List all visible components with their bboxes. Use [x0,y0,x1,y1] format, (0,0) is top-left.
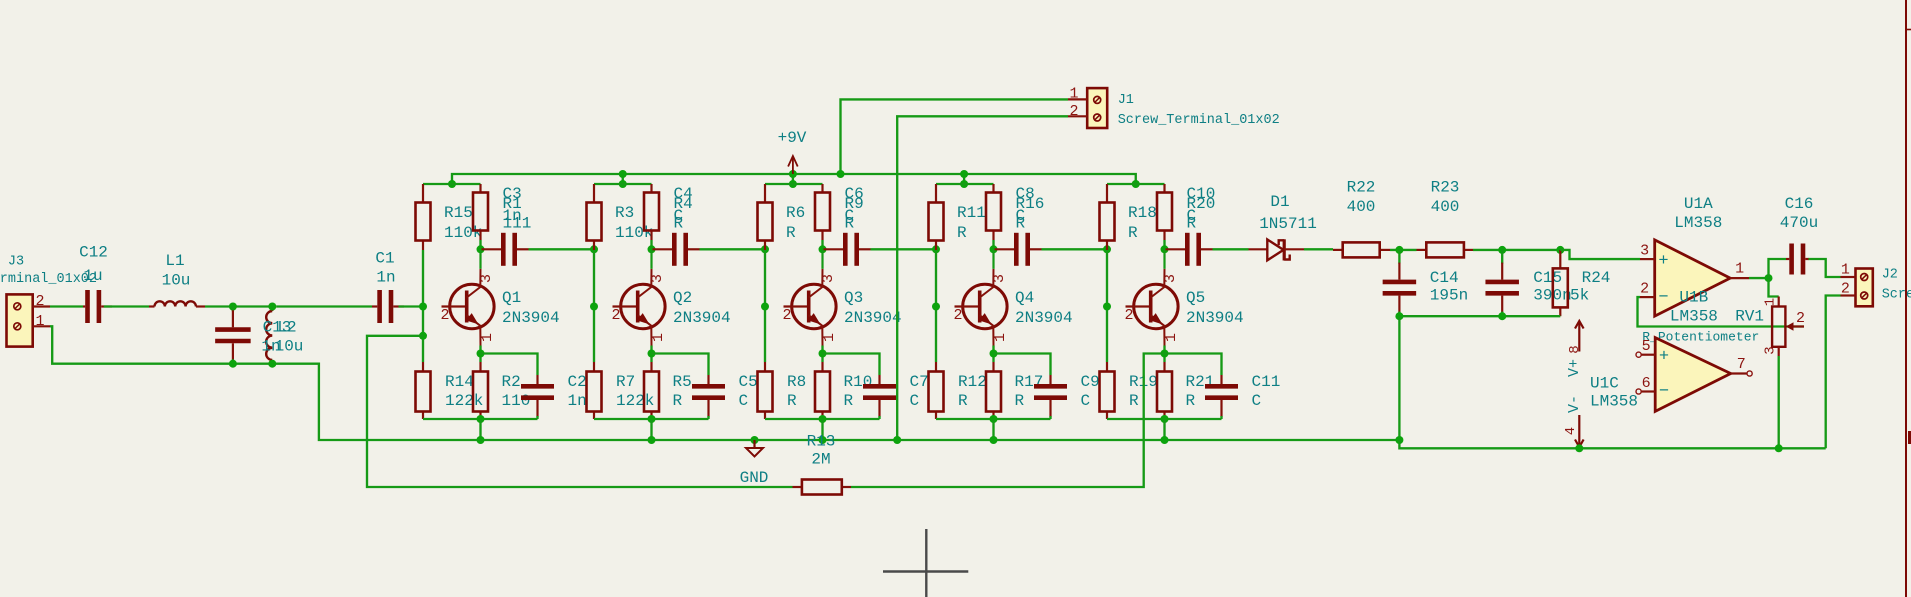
power +9V [788,156,798,174]
resistor R9 [815,184,830,240]
svg-text:U1A: U1A [1684,195,1713,213]
transistor Q4 [955,249,1008,345]
junction L2 top [268,303,276,311]
wire to bypass C2 [481,354,538,376]
svg-text:3: 3 [478,274,495,283]
svg-text:R13: R13 [807,433,836,451]
svg-text:Screw_Terminal_01x02: Screw_Terminal_01x02 [1118,113,1280,128]
wire J3.2 to C12 [50,305,83,307]
junction GND symbol [751,436,759,444]
junction rail tap top [960,170,968,178]
svg-text:C5: C5 [739,373,758,391]
wire J1.1 to +9V rail [841,99,1069,174]
wire J3.1 return [50,326,1399,440]
svg-text:R: R [786,224,796,242]
svg-text:2N3904: 2N3904 [673,309,731,327]
capacitor C15 [1485,250,1519,316]
wire out to C16 [1769,259,1787,278]
resistor R20 [1157,184,1172,240]
svg-text:1: 1 [650,333,667,342]
pin 1 of J2 [1841,276,1856,278]
resistor R5 [644,362,659,419]
resistor R15 [416,184,431,250]
svg-text:10u: 10u [162,272,191,290]
junction filter ground [1395,436,1403,444]
junction base Q2 [590,303,598,311]
wire feedback left [367,336,793,487]
junction C15 bottom [1498,312,1506,320]
wire feed stage 5 [1107,183,1165,185]
junction RV1 ground [1775,444,1783,452]
resistor R22 [1333,242,1390,257]
resistor R14 [416,362,431,419]
svg-text:2: 2 [1841,281,1850,298]
svg-text:C: C [1081,392,1091,410]
svg-text:1: 1 [992,333,1009,342]
svg-text:5k: 5k [1570,287,1589,305]
svg-text:R: R [1015,392,1025,410]
wire feed stage 3 [765,183,823,185]
wire to bypass C5 [652,354,709,376]
svg-text:3: 3 [649,274,666,283]
junction C14 bottom [1395,312,1403,320]
junction C13 top [229,303,237,311]
resistor R12 [929,362,944,419]
resistor R24 [1553,250,1568,316]
junction R24 top [1556,246,1564,254]
junction J1.1 rail [837,170,845,178]
junction rail tap bottom [619,180,627,188]
junction V- rail [1575,444,1583,452]
svg-text:470u: 470u [1780,214,1818,232]
wire to bypass C9 [994,354,1051,376]
svg-text:3: 3 [991,274,1008,283]
wire C10 to D1 [1213,248,1249,250]
wire emitter Q4 [992,346,994,363]
svg-text:5: 5 [1642,338,1651,355]
wire R9 to collector [821,240,823,249]
junction collector Q4 [990,245,998,253]
svg-text:2: 2 [1124,307,1133,324]
svg-text:R5: R5 [673,373,692,391]
svg-text:R: R [958,392,968,410]
svg-text:2: 2 [611,307,620,324]
wire base line Q2 [593,250,595,362]
svg-text:R12: R12 [958,373,987,391]
junction emitter Q3 [819,350,827,358]
capacitor C8 [995,233,1042,266]
svg-text:R11: R11 [957,204,986,222]
svg-text:R6: R6 [786,204,805,222]
svg-text:110k: 110k [444,224,482,242]
junction ground Q3 [819,436,827,444]
wire out to RV1 [1769,278,1779,296]
junction collector Q1 [477,245,485,253]
svg-text:2: 2 [35,293,44,310]
wire C16 to J2.1 [1809,259,1841,277]
wire J2.2 to ground [1826,296,1841,449]
svg-text:1: 1 [1735,261,1744,278]
svg-text:400: 400 [1431,198,1460,216]
resistor R19 [1100,362,1115,419]
svg-text:2: 2 [1069,103,1078,120]
svg-text:R: R [674,215,684,233]
wire J1.2 to ground [897,116,1068,440]
svg-text:C12: C12 [79,244,108,262]
wire coupling to stage 4 [871,248,937,250]
svg-text:3: 3 [1763,346,1779,354]
svg-text:RV1: RV1 [1735,307,1764,325]
wire R1 to collector [479,240,481,249]
svg-text:LM358: LM358 [1590,393,1638,411]
svg-text:3: 3 [820,274,837,283]
connector J3 [7,294,33,346]
svg-text:R22: R22 [1347,179,1376,197]
junction tie Q2 [648,415,656,423]
resistor R23 [1417,242,1474,257]
svg-text:1: 1 [821,333,838,342]
svg-text:R: R [1016,215,1026,233]
wire tie to ground Q1 [479,419,481,440]
svg-text:L2: L2 [277,319,296,337]
junction tie Q4 [990,415,998,423]
wire R23 to R24 [1473,249,1560,251]
resistor R4 [644,184,659,240]
wire U1A.2 to wiper [1638,297,1805,326]
capacitor C10 [1166,233,1213,266]
svg-text:1: 1 [1163,333,1180,342]
wire C1 to Q1 base [399,305,424,307]
wire base line Q1 [422,250,424,362]
svg-text:−: − [1658,288,1668,307]
transistor Q2 [613,249,666,345]
svg-text:C9: C9 [1081,373,1100,391]
junction base Q5 [1103,303,1111,311]
wire bottom tie stage 3 [765,418,880,420]
svg-text:2N3904: 2N3904 [502,309,560,327]
sheet border [1906,0,1911,597]
junction base feed Q4 [932,245,940,253]
svg-text:U1C: U1C [1590,375,1619,393]
svg-text:GND: GND [740,469,769,487]
svg-text:R: R [845,215,855,233]
resistor R21 [1157,362,1172,419]
junction emitter Q4 [990,350,998,358]
wire node to C1 [277,305,372,307]
junction rail end [1132,180,1140,188]
resistor R18 [1100,184,1115,250]
transistor Q1 [442,249,495,345]
svg-text:2: 2 [1640,281,1649,298]
junction U1A output [1765,274,1773,282]
svg-text:LM358: LM358 [1670,307,1718,325]
svg-text:U1B: U1B [1679,289,1708,307]
svg-text:+9V: +9V [778,129,807,147]
resistor R2 [473,362,488,419]
svg-text:R3: R3 [615,204,634,222]
wire coupling to stage 3 [700,248,766,250]
svg-text:110k: 110k [615,224,653,242]
svg-text:R2: R2 [502,373,521,391]
capacitor C1 [372,290,404,323]
resistor R6 [758,184,773,250]
junction base feed Q3 [761,245,769,253]
wire feed stage 4 [936,183,994,185]
diode D1 [1249,239,1305,260]
junction base feed Q5 [1103,245,1111,253]
junction ground Q4 [990,436,998,444]
wire C12 to L1 [104,305,149,307]
wire +9V rail [452,174,1136,184]
wire base line Q3 [764,250,766,362]
svg-text:2M: 2M [811,451,830,469]
svg-text:R14: R14 [445,373,474,391]
junction collector Q5 [1161,245,1169,253]
svg-text:195n: 195n [1430,287,1468,305]
wire emitter Q3 [821,346,823,363]
svg-text:2N3904: 2N3904 [1186,309,1244,327]
svg-text:122k: 122k [616,392,654,410]
resistor R3 [587,184,602,250]
junction emitter Q1 [477,350,485,358]
junction rail tap bottom [960,180,968,188]
svg-text:2: 2 [953,307,962,324]
junction base feed Q2 [590,245,598,253]
svg-text:C15: C15 [1533,269,1562,287]
junction ground Q1 [477,436,485,444]
capacitor C4 [653,233,700,266]
svg-text:2N3904: 2N3904 [1015,309,1073,327]
pin 2 of J2 [1841,294,1856,296]
wire bottom tie stage 4 [936,418,1051,420]
svg-text:111: 111 [503,215,532,233]
wire to U1A pin3 [1560,250,1640,259]
power pin V+ of U1C [1575,321,1584,352]
svg-text:Q1: Q1 [502,289,521,307]
svg-text:2N3904: 2N3904 [844,309,902,327]
svg-text:2: 2 [1796,310,1805,327]
svg-text:R8: R8 [787,373,806,391]
svg-text:V+: V+ [1566,359,1583,377]
junction rail start [448,180,456,188]
wire cap ground tie [1399,315,1560,317]
svg-text:110: 110 [502,392,531,410]
resistor R17 [986,362,1001,419]
svg-text:Q3: Q3 [844,289,863,307]
resistor R13 [793,480,852,495]
wire R22 to R23 [1390,249,1417,251]
wire tie to ground Q2 [650,419,652,440]
resistor R1 [473,184,488,240]
capacitor C14 [1383,250,1417,316]
wire bottom tie stage 5 [1107,418,1222,420]
capacitor C11 [1205,375,1238,419]
svg-text:−: − [1659,383,1669,402]
svg-text:C1: C1 [375,250,394,268]
wire base line Q5 [1106,250,1108,362]
junction rail tap top [789,170,797,178]
crosshair marker [883,529,968,597]
svg-text:J1: J1 [1118,93,1134,108]
ground [746,440,763,457]
svg-text:D1: D1 [1270,193,1289,211]
junction emitter Q2 [648,350,656,358]
svg-text:1: 1 [35,313,44,330]
svg-text:400: 400 [1347,198,1376,216]
svg-text:R: R [957,224,967,242]
capacitor C13 [215,307,251,364]
inductor L2 [266,307,272,364]
svg-text:Q4: Q4 [1015,289,1034,307]
svg-text:C11: C11 [1252,373,1281,391]
svg-text:1: 1 [1763,298,1779,306]
junction emitter Q5 [1161,350,1169,358]
wire right ground rail [1399,440,1825,448]
op-amp U1A [1640,240,1749,316]
svg-text:10u: 10u [275,338,304,356]
junction C14 top [1395,246,1403,254]
junction feedback at Q1 base [419,332,427,340]
svg-text:R18: R18 [1128,204,1157,222]
wire RV1.3 to ground [1778,356,1780,448]
wire coupling to stage 5 [1042,248,1108,250]
svg-text:R15: R15 [444,204,473,222]
svg-text:1n: 1n [376,269,395,287]
wire R4 to collector [650,240,652,249]
capacitor C6 [824,233,871,266]
svg-text:1: 1 [1841,262,1850,279]
svg-text:R23: R23 [1431,179,1460,197]
capacitor C2 [521,375,554,419]
svg-text:V-: V- [1566,395,1583,413]
wire L1 to node [205,305,277,307]
svg-text:C16: C16 [1785,195,1814,213]
wire rail tap [622,174,624,184]
wire rail tap [792,174,794,184]
svg-text:3: 3 [1162,274,1179,283]
wire D1 to R22 [1304,248,1333,250]
svg-text:J3: J3 [8,255,24,270]
svg-text:J2: J2 [1882,268,1898,283]
junction tie Q3 [819,415,827,423]
junction collector Q3 [819,245,827,253]
resistor R8 [758,362,773,419]
power pin V- of U1C [1575,415,1584,447]
op-amp U1B [1636,338,1752,412]
junction rail tap top [619,170,627,178]
svg-text:Q2: Q2 [673,289,692,307]
wire tie to ground Q5 [1163,419,1165,440]
wire U1A.1 out [1749,277,1769,279]
svg-text:6: 6 [1642,375,1651,392]
wire bottom tie stage 2 [594,418,709,420]
svg-text:C2: C2 [568,373,587,391]
junction base Q1 [419,303,427,311]
svg-text:C7: C7 [910,373,929,391]
svg-text:3: 3 [1640,243,1649,260]
connector J2 [1856,269,1873,307]
svg-text:R: R [787,392,797,410]
junction ground Q2 [648,436,656,444]
pin 1 of J1 [1068,98,1087,100]
resistor R16 [986,184,1001,240]
svg-text:C: C [739,392,749,410]
connector J1 [1087,88,1107,128]
svg-text:R: R [1187,215,1197,233]
svg-text:1u: 1u [83,267,102,285]
junction tie Q1 [477,415,485,423]
svg-text:L1: L1 [165,252,184,270]
capacitor C5 [692,375,725,419]
wire rail tap [963,174,965,184]
wire emitter Q1 [479,346,481,363]
transistor Q5 [1126,249,1179,345]
potentiometer RV1 [1772,297,1804,357]
svg-text:1N5711: 1N5711 [1259,215,1317,233]
capacitor C9 [1034,375,1067,419]
junction base Q4 [932,303,940,311]
svg-text:+: + [1658,252,1668,271]
wire feedback right [851,354,1165,488]
svg-text:2: 2 [782,307,791,324]
svg-text:R7: R7 [616,373,635,391]
wire to bypass C7 [823,354,880,376]
svg-text:C: C [1252,392,1262,410]
svg-text:R: R [1186,392,1196,410]
resistor R11 [929,184,944,250]
capacitor C16 [1786,244,1809,275]
capacitor C12 [83,290,112,323]
svg-text:8: 8 [1567,345,1583,353]
pin 2 of J3 [33,305,50,307]
junction J1.2 ground [893,436,901,444]
capacitor C3 [482,233,529,266]
wire emitter Q2 [650,346,652,363]
svg-text:4: 4 [1563,427,1579,435]
junction tie Q5 [1161,415,1169,423]
wire bottom tie stage 1 [423,418,538,420]
wire to bypass C11 [1165,354,1222,376]
junction C13 bottom [229,360,237,368]
wire feed stage 1 [423,183,481,185]
wire tie to ground Q4 [992,419,994,440]
wire coupling to stage 2 [529,248,595,250]
wire R20 to collector [1163,240,1165,249]
svg-text:R: R [673,392,683,410]
svg-text:R24: R24 [1582,269,1611,287]
resistor R10 [815,362,830,419]
svg-text:7: 7 [1737,356,1746,373]
pin 2 of J1 [1068,115,1087,117]
wire R16 to collector [992,240,994,249]
transistor Q3 [784,249,837,345]
svg-text:R: R [1128,224,1138,242]
wire tie to ground Q3 [821,419,823,440]
svg-text:2: 2 [440,307,449,324]
capacitor C7 [863,375,896,419]
svg-text:C14: C14 [1430,269,1459,287]
svg-text:C: C [910,392,920,410]
wire base line Q4 [935,250,937,362]
svg-text:122k: 122k [445,392,483,410]
inductor L1 [149,301,205,306]
junction L2 bottom [268,360,276,368]
svg-text:LM358: LM358 [1674,214,1722,232]
junction rail tap bottom [789,180,797,188]
svg-text:Q5: Q5 [1186,289,1205,307]
junction collector Q2 [648,245,656,253]
resistor R7 [587,362,602,419]
